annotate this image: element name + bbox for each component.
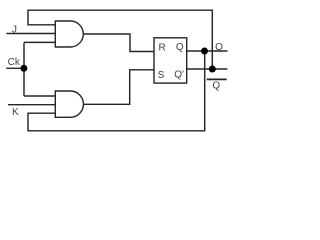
junction dot Q' node bbox=[209, 66, 216, 73]
and-gate U2 bottom (K side) bbox=[55, 91, 83, 117]
svg-text:Q: Q bbox=[176, 42, 184, 53]
wire top feedback from Q' up over the top to AND1 input 1 bbox=[28, 10, 212, 69]
wire Ck input bbox=[6, 67, 24, 69]
overline of Q-bar output label bbox=[207, 78, 227, 80]
wire Q' output bbox=[187, 68, 228, 70]
wire Ck branch to AND1 input 3 bbox=[24, 41, 55, 43]
wire Q output bbox=[187, 50, 228, 52]
wire J input bbox=[6, 33, 55, 35]
wire K input bbox=[8, 104, 55, 106]
svg-text:S: S bbox=[158, 70, 165, 81]
and-gate U1 top (J side) bbox=[55, 21, 83, 47]
svg-text:Q′: Q′ bbox=[174, 70, 184, 81]
svg-text:R: R bbox=[159, 42, 166, 53]
wire bottom feedback from Q down around to AND2 input 3 bbox=[28, 51, 205, 131]
wire AND2 output to S input bbox=[83, 70, 154, 105]
svg-text:J: J bbox=[12, 23, 17, 35]
svg-text:Ck: Ck bbox=[8, 57, 21, 68]
junction dot Ck node bbox=[20, 65, 27, 72]
svg-text:K: K bbox=[12, 107, 19, 118]
svg-text:Q: Q bbox=[212, 81, 220, 92]
wire Ck vertical trunk bbox=[23, 42, 25, 96]
svg-text:Q: Q bbox=[215, 42, 223, 53]
wire Ck branch to AND2 input 1 bbox=[24, 95, 55, 97]
wire AND1 output to R input bbox=[83, 34, 154, 52]
junction dot Q node bbox=[201, 48, 208, 55]
SR latch U3 box bbox=[154, 38, 187, 83]
